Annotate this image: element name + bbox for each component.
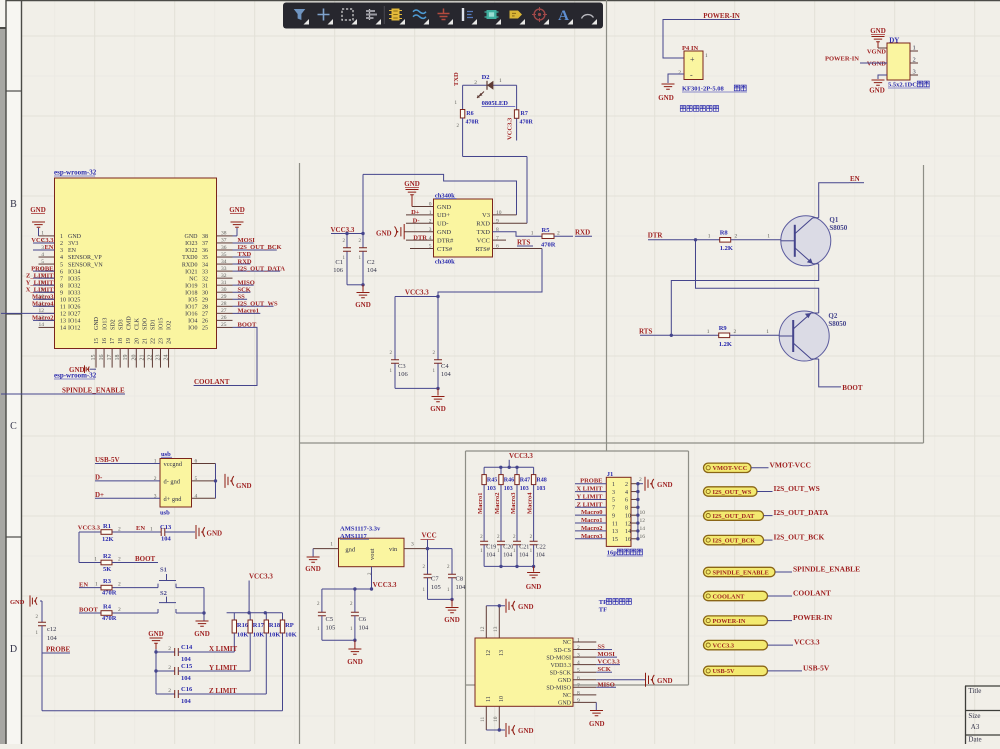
svg-text:USB-5V: USB-5V: [713, 668, 735, 675]
svg-text:d+ gnd: d+ gnd: [164, 496, 183, 503]
svg-text:10: 10: [493, 716, 499, 722]
svg-text:Macro2: Macro2: [32, 315, 54, 322]
svg-text:8: 8: [577, 690, 580, 696]
svg-text:CTS#: CTS#: [437, 246, 453, 253]
svg-text:37: 37: [221, 238, 227, 244]
svg-text:GND: GND: [657, 677, 673, 685]
svg-text:R7: R7: [521, 111, 528, 117]
svg-text:9: 9: [612, 513, 615, 519]
svg-text:IO14: IO14: [68, 319, 80, 325]
svg-text:IO2: IO2: [167, 321, 173, 330]
svg-text:SD-SCK: SD-SCK: [550, 670, 572, 676]
svg-text:IO33: IO33: [68, 290, 80, 296]
svg-text:Date: Date: [968, 736, 981, 744]
svg-text:8: 8: [625, 506, 628, 512]
svg-text:X LIMIT: X LIMIT: [209, 645, 238, 653]
svg-text:1: 1: [707, 329, 710, 335]
svg-text:1: 1: [913, 45, 916, 52]
svg-text:VGND: VGND: [867, 61, 886, 68]
svg-text:MISO: MISO: [598, 681, 615, 688]
svg-text:GND: GND: [589, 720, 605, 728]
svg-text:IO27: IO27: [68, 312, 80, 318]
svg-text:Y_LIMIT: Y_LIMIT: [26, 279, 54, 286]
svg-text:Z LIMIT: Z LIMIT: [209, 687, 237, 695]
svg-text:25: 25: [221, 322, 227, 328]
svg-text:104: 104: [359, 625, 370, 632]
svg-text:18: 18: [115, 355, 121, 361]
svg-text:IO34: IO34: [68, 269, 80, 275]
svg-text:Q1: Q1: [829, 216, 838, 224]
svg-text:3: 3: [411, 542, 414, 548]
svg-text:14: 14: [60, 326, 66, 332]
svg-text:470R: 470R: [102, 590, 117, 597]
svg-text:104: 104: [161, 536, 172, 543]
svg-text:SD-MOSI: SD-MOSI: [546, 655, 571, 661]
svg-text:J1: J1: [607, 471, 614, 478]
svg-text:27: 27: [202, 312, 208, 318]
svg-text:1: 1: [60, 234, 63, 240]
svg-text:22: 22: [150, 338, 156, 344]
svg-text:A: A: [558, 8, 569, 24]
svg-text:IO23: IO23: [185, 241, 197, 247]
svg-text:11: 11: [60, 305, 66, 311]
svg-text:1: 1: [95, 582, 98, 588]
svg-text:6: 6: [577, 675, 580, 681]
svg-text:SD-MISO: SD-MISO: [546, 686, 571, 692]
svg-text:11: 11: [480, 716, 486, 722]
svg-text:SD-CS: SD-CS: [554, 648, 571, 654]
svg-text:IO4: IO4: [188, 319, 197, 325]
svg-text:SS: SS: [238, 293, 246, 300]
svg-text:VDD3.3: VDD3.3: [551, 663, 572, 669]
svg-text:GND: GND: [526, 583, 542, 591]
svg-text:1: 1: [612, 482, 615, 488]
svg-text:IO22: IO22: [185, 248, 197, 254]
svg-text:3: 3: [60, 248, 63, 254]
svg-text:GND: GND: [558, 678, 572, 684]
svg-text:R46: R46: [504, 478, 514, 484]
svg-text:R48: R48: [536, 478, 546, 484]
svg-text:6: 6: [625, 498, 628, 504]
svg-text:TF: TF: [599, 607, 607, 614]
svg-text:EN: EN: [850, 175, 860, 183]
svg-text:2: 2: [168, 665, 171, 671]
svg-text:7: 7: [60, 276, 63, 282]
svg-text:470R: 470R: [520, 120, 534, 126]
svg-text:d- gnd: d- gnd: [164, 478, 181, 485]
svg-text:R17: R17: [253, 622, 265, 629]
svg-text:2: 2: [118, 557, 121, 563]
svg-text:12: 12: [625, 521, 631, 527]
svg-text:10K: 10K: [237, 632, 249, 639]
svg-text:VMOT-VCC: VMOT-VCC: [713, 465, 748, 472]
svg-text:7: 7: [577, 683, 580, 689]
svg-text:30: 30: [221, 287, 227, 293]
svg-text:A3: A3: [971, 723, 980, 731]
svg-text:104: 104: [181, 656, 192, 663]
svg-text:Macro1: Macro1: [581, 517, 603, 524]
svg-text:EN: EN: [44, 244, 53, 251]
svg-text:C4: C4: [441, 363, 449, 370]
svg-text:RTS#: RTS#: [475, 246, 491, 253]
svg-text:R2: R2: [103, 553, 111, 560]
svg-text:Macro4: Macro4: [32, 301, 54, 308]
svg-text:36: 36: [202, 248, 208, 254]
svg-text:UD-: UD-: [437, 221, 449, 228]
svg-text:BOOT: BOOT: [842, 384, 863, 392]
svg-text:GND: GND: [657, 481, 673, 489]
svg-text:MOSI: MOSI: [598, 651, 616, 658]
svg-text:2: 2: [625, 482, 628, 488]
svg-text:USB-5V: USB-5V: [803, 663, 830, 672]
svg-text:21: 21: [139, 355, 145, 361]
svg-text:Macro3: Macro3: [32, 293, 54, 300]
svg-text:2: 2: [557, 231, 560, 237]
svg-text:4: 4: [41, 252, 44, 258]
svg-text:28: 28: [221, 301, 227, 307]
svg-text:IO19: IO19: [185, 283, 197, 289]
svg-text:104: 104: [536, 553, 545, 559]
svg-text:GND: GND: [194, 630, 210, 638]
svg-text:vccgnd: vccgnd: [164, 461, 183, 468]
svg-text:16: 16: [640, 534, 646, 540]
svg-text:VCC3.3: VCC3.3: [331, 226, 355, 234]
svg-text:C19: C19: [486, 545, 496, 551]
svg-text:GND: GND: [347, 658, 363, 666]
svg-text:SPINDLE_ENABLE: SPINDLE_ENABLE: [713, 569, 769, 576]
svg-text:USB-5V: USB-5V: [95, 456, 120, 464]
svg-text:R18: R18: [269, 622, 281, 629]
svg-text:POWER-IN: POWER-IN: [713, 618, 746, 625]
svg-text:1: 1: [708, 234, 711, 240]
svg-text:D+: D+: [95, 491, 104, 499]
svg-text:26: 26: [221, 315, 227, 321]
svg-text:V3: V3: [482, 212, 490, 219]
svg-text:1: 1: [94, 557, 97, 563]
svg-text:104: 104: [367, 267, 378, 274]
svg-text:12K: 12K: [102, 536, 114, 543]
svg-text:GND: GND: [207, 530, 223, 538]
svg-text:COOLANT: COOLANT: [793, 589, 831, 598]
svg-text:SD1: SD1: [151, 319, 157, 330]
svg-text:S8050: S8050: [829, 224, 847, 232]
svg-text:vin: vin: [389, 546, 398, 553]
svg-text:105: 105: [326, 625, 336, 632]
svg-text:10: 10: [499, 696, 505, 702]
svg-text:13: 13: [499, 650, 505, 656]
svg-text:33: 33: [221, 266, 227, 272]
svg-text:GND: GND: [229, 206, 245, 214]
svg-text:9: 9: [577, 698, 580, 704]
svg-text:GND: GND: [376, 229, 392, 237]
svg-text:Macro2: Macro2: [581, 525, 603, 532]
svg-text:C13: C13: [160, 524, 172, 531]
svg-text:DTR: DTR: [413, 234, 427, 241]
svg-text:31: 31: [202, 283, 208, 289]
svg-text:Macro4: Macro4: [527, 492, 534, 514]
svg-text:2: 2: [639, 477, 642, 483]
svg-text:VCC3.3: VCC3.3: [78, 525, 101, 532]
svg-text:Macro3: Macro3: [510, 492, 517, 514]
svg-text:13: 13: [60, 319, 66, 325]
svg-text:VCC3.3: VCC3.3: [507, 117, 514, 140]
svg-text:c12: c12: [47, 626, 56, 633]
svg-text:R1: R1: [103, 523, 111, 530]
svg-text:Y LIMIT: Y LIMIT: [577, 493, 604, 500]
svg-text:34: 34: [202, 262, 208, 268]
svg-text:Z LIMIT: Z LIMIT: [577, 501, 603, 508]
svg-text:GND: GND: [68, 234, 82, 240]
svg-text:GND: GND: [30, 206, 46, 214]
svg-text:GND: GND: [558, 701, 572, 707]
svg-text:RP: RP: [285, 622, 294, 629]
svg-text:14: 14: [625, 529, 631, 535]
svg-text:C8: C8: [456, 576, 464, 583]
svg-text:Size: Size: [968, 712, 980, 720]
svg-text:BOOT: BOOT: [79, 607, 98, 614]
svg-text:TXD: TXD: [453, 72, 460, 86]
svg-text:C16: C16: [181, 686, 193, 693]
svg-text:GND: GND: [444, 616, 460, 624]
svg-text:104: 104: [519, 553, 528, 559]
svg-text:1: 1: [531, 231, 534, 237]
svg-text:RTS: RTS: [639, 328, 652, 336]
svg-text:C14: C14: [181, 644, 193, 651]
svg-text:R8: R8: [720, 230, 729, 237]
svg-text:D+: D+: [411, 209, 420, 216]
svg-text:30: 30: [202, 290, 208, 296]
svg-text:GND: GND: [658, 94, 674, 102]
svg-text:IO35: IO35: [68, 276, 80, 282]
svg-text:R4: R4: [103, 604, 112, 611]
svg-text:COOLANT: COOLANT: [194, 378, 230, 386]
svg-text:3: 3: [612, 490, 615, 496]
svg-text:IO21: IO21: [185, 269, 197, 275]
svg-text:PROBE: PROBE: [31, 265, 53, 272]
svg-text:5: 5: [60, 262, 63, 268]
svg-text:Macro3: Macro3: [581, 533, 603, 540]
svg-text:VGND: VGND: [867, 49, 886, 56]
svg-text:C3: C3: [398, 363, 406, 370]
svg-text:2: 2: [168, 646, 171, 652]
svg-text:1.2K: 1.2K: [720, 245, 733, 252]
svg-text:18: 18: [118, 338, 124, 344]
svg-text:COOLANT: COOLANT: [713, 593, 746, 600]
svg-text:GND: GND: [236, 482, 252, 490]
svg-text:GND: GND: [185, 234, 199, 240]
svg-text:GND: GND: [10, 599, 25, 606]
svg-text:NC: NC: [189, 276, 197, 282]
svg-text:KF301-2P-5.08: KF301-2P-5.08: [682, 86, 724, 93]
svg-text:10K: 10K: [269, 632, 281, 639]
svg-text:VCC3.3: VCC3.3: [598, 659, 621, 666]
svg-text:IO32: IO32: [68, 283, 80, 289]
svg-text:12: 12: [60, 312, 66, 318]
svg-text:IO5: IO5: [188, 297, 197, 303]
svg-text:C5: C5: [326, 616, 334, 623]
svg-text:CLK: CLK: [135, 317, 141, 330]
svg-text:I2S_OUT_DAT: I2S_OUT_DAT: [713, 513, 756, 520]
svg-text:15: 15: [91, 355, 97, 361]
svg-text:TXD0: TXD0: [182, 255, 197, 261]
svg-text:C2: C2: [367, 259, 375, 266]
svg-text:DTR: DTR: [648, 232, 664, 240]
svg-text:VCC3.3: VCC3.3: [713, 642, 735, 649]
svg-text:5: 5: [577, 668, 580, 674]
svg-text:1: 1: [577, 638, 580, 644]
svg-text:27: 27: [221, 308, 227, 314]
svg-text:GND: GND: [518, 727, 534, 735]
svg-text:IO15: IO15: [159, 318, 165, 330]
svg-text:Title: Title: [968, 687, 981, 695]
svg-text:UD+: UD+: [437, 212, 450, 219]
svg-text:3V3: 3V3: [68, 241, 78, 247]
svg-text:C6: C6: [359, 616, 367, 623]
svg-text:25: 25: [202, 326, 208, 332]
svg-text:24: 24: [164, 355, 170, 361]
svg-text:S8050: S8050: [828, 320, 846, 328]
svg-text:usb: usb: [160, 510, 170, 517]
svg-text:4: 4: [60, 255, 63, 261]
svg-text:R9: R9: [719, 325, 728, 332]
svg-text:I2S_OUT_DATA: I2S_OUT_DATA: [238, 265, 286, 272]
svg-text:5.5x2.1DC: 5.5x2.1DC: [888, 82, 917, 89]
svg-text:D2: D2: [482, 74, 490, 81]
svg-text:X LIMIT: X LIMIT: [576, 486, 603, 493]
svg-text:VCC3.3: VCC3.3: [31, 237, 54, 244]
svg-text:104: 104: [181, 698, 192, 705]
svg-text:10: 10: [640, 510, 646, 516]
svg-text:24: 24: [167, 338, 173, 344]
svg-text:32: 32: [202, 276, 208, 282]
svg-text:POWER-IN: POWER-IN: [793, 613, 833, 622]
svg-text:Y LIMIT: Y LIMIT: [209, 664, 237, 672]
svg-text:0805LED: 0805LED: [482, 100, 509, 107]
svg-text:I2S_OUT_WS: I2S_OUT_WS: [774, 484, 820, 493]
svg-text:35: 35: [202, 255, 208, 261]
svg-text:DTR#: DTR#: [437, 237, 454, 244]
svg-text:2: 2: [118, 607, 121, 613]
svg-text:I2S_OUT_WS: I2S_OUT_WS: [238, 301, 278, 308]
svg-text:103: 103: [520, 486, 529, 492]
svg-text:vout: vout: [369, 548, 376, 560]
svg-text:37: 37: [202, 241, 208, 247]
svg-text:Q2: Q2: [828, 312, 837, 320]
svg-text:EN: EN: [136, 525, 145, 532]
svg-text:20: 20: [131, 355, 137, 361]
svg-text:esp-wroom-32: esp-wroom-32: [54, 169, 97, 177]
svg-text:GND: GND: [870, 27, 886, 35]
svg-text:9: 9: [60, 290, 63, 296]
svg-text:1: 1: [766, 329, 769, 335]
svg-text:2: 2: [474, 80, 477, 86]
svg-text:R45: R45: [487, 478, 497, 484]
svg-text:SPINDLE_ENABLE: SPINDLE_ENABLE: [793, 565, 860, 574]
svg-text:I2S_OUT_BCK: I2S_OUT_BCK: [774, 533, 825, 542]
svg-text:470R: 470R: [466, 120, 480, 126]
svg-text:IO18: IO18: [185, 290, 197, 296]
svg-text:5: 5: [612, 498, 615, 504]
svg-text:104: 104: [486, 553, 495, 559]
svg-text:gnd: gnd: [345, 547, 356, 554]
svg-text:SENSOR_VP: SENSOR_VP: [68, 255, 102, 261]
svg-text:BOOT: BOOT: [135, 555, 156, 563]
svg-text:NC: NC: [563, 693, 571, 699]
svg-text:S1: S1: [160, 567, 167, 574]
svg-text:SD2: SD2: [110, 319, 116, 330]
svg-text:RXD: RXD: [476, 221, 490, 228]
svg-text:IO25: IO25: [68, 297, 80, 303]
svg-text:C21: C21: [519, 545, 529, 551]
svg-text:6: 6: [60, 269, 63, 275]
svg-text:VMOT-VCC: VMOT-VCC: [770, 460, 811, 469]
svg-text:SPINDLE_ENABLE: SPINDLE_ENABLE: [62, 387, 125, 395]
svg-text:I2S_OUT_DATA: I2S_OUT_DATA: [774, 508, 829, 517]
svg-text:GND: GND: [430, 405, 446, 413]
svg-text:19: 19: [123, 355, 129, 361]
svg-text:TXD: TXD: [238, 251, 252, 258]
svg-text:2: 2: [734, 329, 737, 335]
svg-text:+: +: [690, 55, 695, 64]
svg-text:Macro1: Macro1: [238, 308, 260, 315]
svg-text:IO16: IO16: [185, 312, 197, 318]
svg-text:12: 12: [486, 650, 492, 656]
svg-text:38: 38: [221, 231, 227, 237]
svg-text:2: 2: [168, 688, 171, 694]
svg-text:GND: GND: [305, 565, 321, 573]
svg-text:105: 105: [431, 584, 441, 591]
svg-text:33: 33: [202, 269, 208, 275]
svg-text:16p: 16p: [607, 550, 618, 557]
svg-text:12: 12: [480, 626, 486, 632]
svg-text:PROBE: PROBE: [580, 478, 602, 485]
svg-text:1: 1: [330, 542, 333, 548]
svg-text:13: 13: [612, 529, 618, 535]
svg-text:10: 10: [60, 297, 66, 303]
svg-text:4: 4: [625, 490, 628, 496]
svg-text:IO26: IO26: [68, 305, 80, 311]
svg-text:BOOT: BOOT: [238, 322, 257, 329]
svg-text:3: 3: [913, 69, 916, 76]
svg-text:SD3: SD3: [118, 319, 124, 330]
svg-text:103: 103: [536, 486, 545, 492]
svg-text:VCC: VCC: [422, 532, 437, 540]
svg-text:2: 2: [60, 241, 63, 247]
svg-text:31: 31: [221, 280, 227, 286]
svg-text:17: 17: [107, 355, 113, 361]
svg-text:-: -: [690, 71, 693, 80]
svg-text:VCC3.3: VCC3.3: [249, 573, 273, 581]
svg-text:POWER-IN: POWER-IN: [825, 56, 859, 63]
svg-text:C7: C7: [431, 576, 439, 583]
svg-text:2: 2: [678, 70, 681, 76]
svg-text:104: 104: [441, 371, 452, 378]
svg-text:D: D: [10, 644, 17, 655]
svg-text:MOSI: MOSI: [238, 237, 256, 244]
svg-text:1: 1: [41, 231, 44, 237]
svg-text:29: 29: [202, 297, 208, 303]
svg-text:2: 2: [118, 582, 121, 588]
svg-text:2: 2: [913, 57, 916, 64]
svg-text:15: 15: [612, 537, 618, 543]
svg-text:4: 4: [577, 660, 580, 666]
svg-text:32: 32: [221, 273, 227, 279]
svg-text:16: 16: [99, 355, 105, 361]
svg-text:VCC3.3: VCC3.3: [509, 452, 533, 460]
svg-text:12: 12: [640, 518, 646, 524]
svg-text:1: 1: [705, 53, 708, 59]
svg-text:103: 103: [487, 486, 496, 492]
